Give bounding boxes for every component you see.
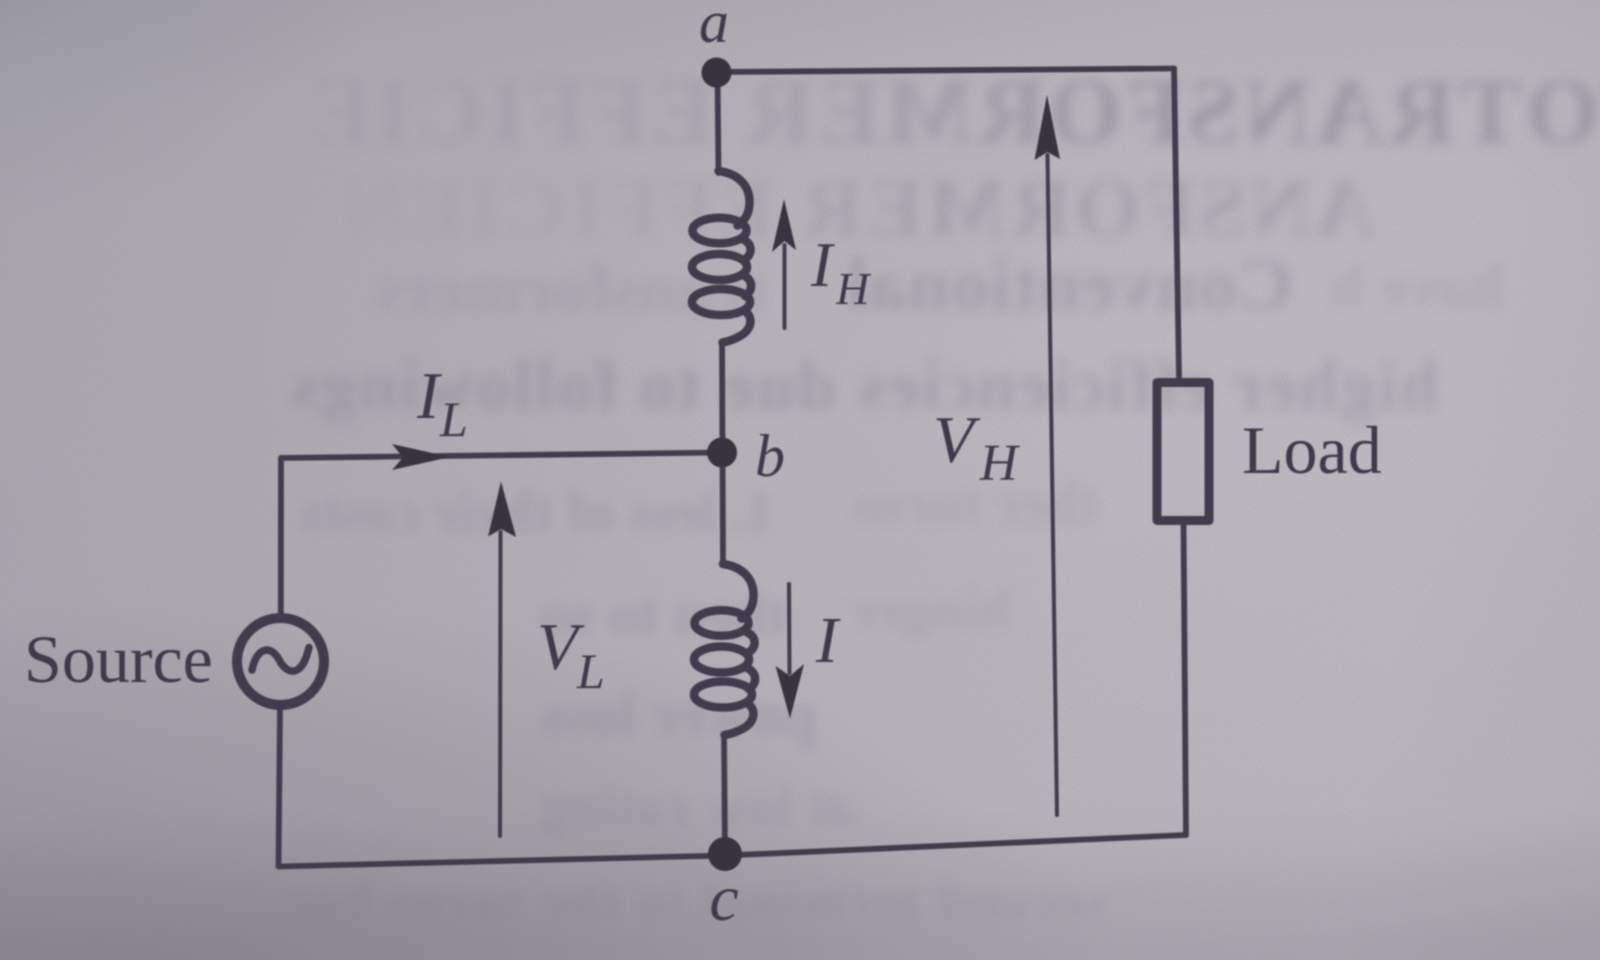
coil 2 exit hook [725, 704, 754, 736]
svg-text:H: H [979, 435, 1020, 492]
coil 2 loop 3 [694, 682, 752, 708]
I arrow shaft [787, 584, 792, 673]
coil 1 turn link 1 [744, 240, 751, 260]
coil 1 loop 3 [692, 289, 750, 315]
svg-text:L: L [576, 643, 605, 699]
node a junction dot [702, 58, 732, 88]
VL arrow shaft [498, 532, 503, 836]
coil 1 entry hook [719, 171, 750, 226]
coil 2 turn link 2 [748, 669, 755, 690]
IH arrowhead [772, 199, 796, 252]
coil 2 loop 2 [694, 647, 749, 673]
svg-text:I: I [416, 359, 442, 433]
wire: horizontal IL wire from left corner to node b [281, 453, 722, 459]
IH arrow shaft [783, 245, 787, 328]
node b junction dot [707, 438, 737, 468]
wire: source top up to left corner of IL wire [278, 458, 284, 615]
wire: node a to top of coil 1 [718, 74, 719, 173]
wire: Load bottom to bottom-right corner [1184, 520, 1187, 835]
coil 2 loop 1 [695, 610, 749, 636]
I arrowhead [776, 664, 805, 719]
wire: coil 2 bottom to node c [724, 737, 725, 854]
inductor coil 1 (winding a-b) hooks [692, 171, 751, 343]
wire: right side from top corner down to Load [1174, 69, 1179, 378]
wire: node b to top of coil 2 [720, 454, 726, 565]
coil 1 exit hook [723, 311, 751, 343]
IL arrowhead [392, 444, 450, 470]
source AC circle [237, 618, 324, 705]
source sine symbol [252, 648, 309, 672]
bleed-through mirrored text from reverse page [305, 58, 1600, 166]
wire: coil 1 bottom to node b [719, 343, 725, 452]
svg-text:V: V [933, 403, 981, 477]
coil 1 loop 1 [693, 218, 747, 244]
svg-text:a: a [699, 0, 729, 55]
svg-text:L: L [439, 391, 468, 447]
wire: bottom from right corner through node c to bottom-left corner [279, 835, 1187, 867]
svg-text:I: I [815, 604, 841, 677]
wire: left side from bottom-left corner up to source [279, 708, 281, 867]
svg-text:Load: Load [1242, 412, 1382, 488]
coil 2 turn link 1 [748, 633, 755, 653]
load resistor rectangle [1157, 383, 1209, 521]
VL arrowhead [488, 482, 516, 538]
svg-text:c: c [709, 862, 738, 935]
svg-text:I: I [810, 229, 835, 300]
VH arrow shaft [1048, 155, 1058, 815]
coil 1 loop 2 [692, 254, 747, 280]
svg-text:H: H [835, 263, 872, 314]
coil 2 entry hook [723, 564, 754, 619]
VH arrowhead [1035, 95, 1061, 160]
svg-text:Source: Source [24, 621, 213, 697]
inductor coil 2 (winding b-c) hooks [694, 564, 755, 735]
node c junction dot [708, 837, 742, 871]
svg-text:b: b [755, 423, 785, 489]
wire: top horizontal from node a to top-right corner [719, 69, 1174, 73]
coil 1 turn link 2 [744, 276, 751, 297]
